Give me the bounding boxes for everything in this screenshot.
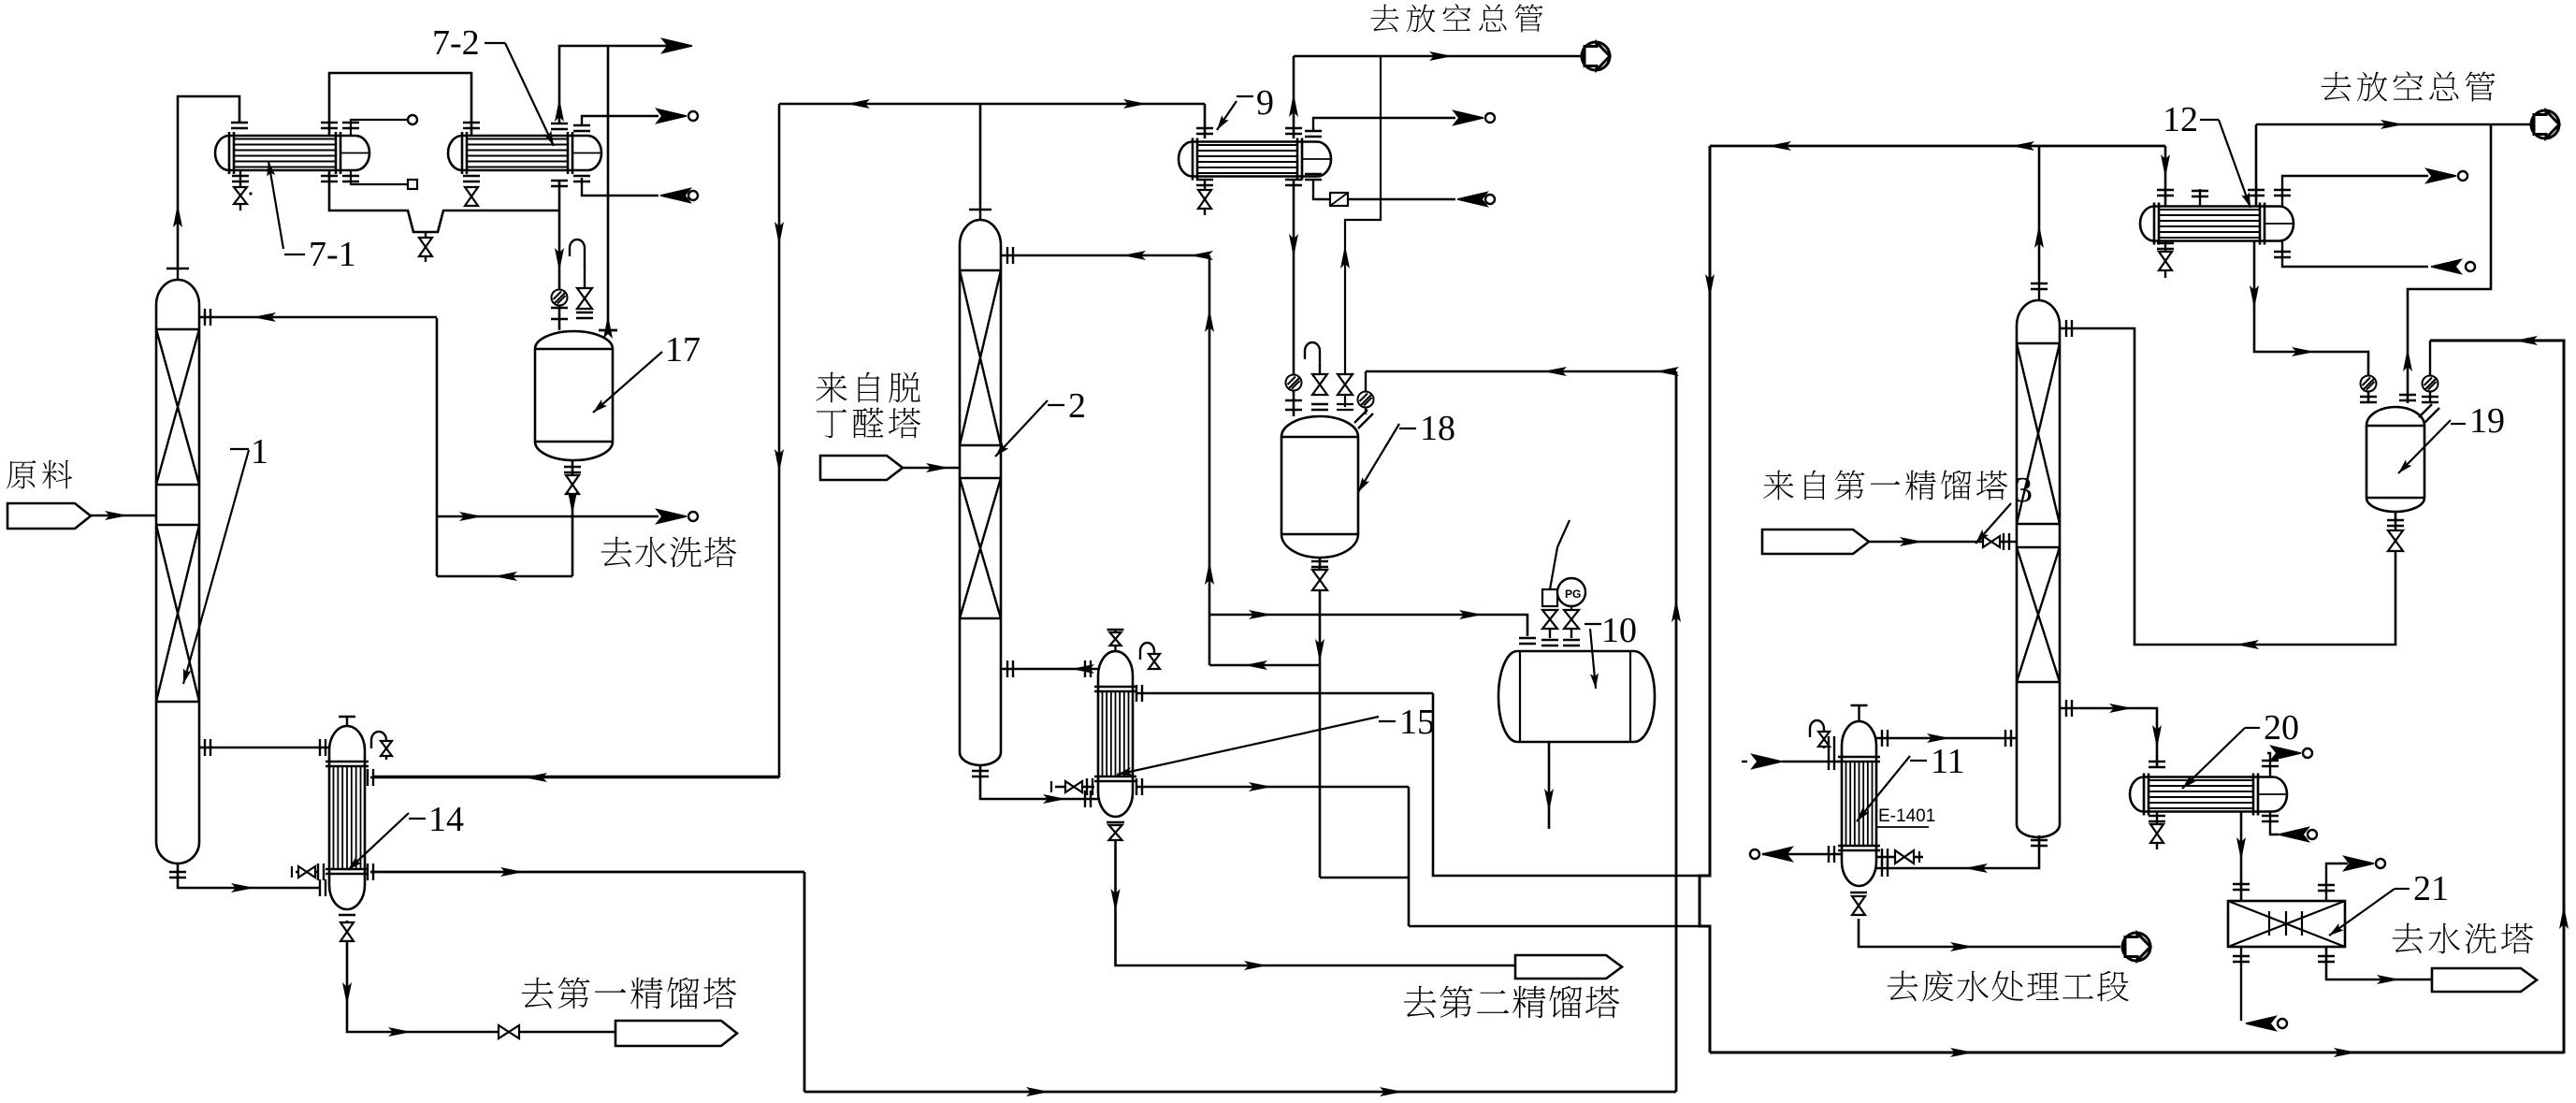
flange riser 7-2 left [463, 123, 480, 128]
arrow right [231, 883, 254, 893]
vessel 10 bottom outlet [1548, 742, 1551, 829]
wire HX12 condensate to vessel 19 [2254, 241, 2368, 403]
wire riser x1828 down (recycle) with jog [1700, 146, 1710, 1052]
wire column 3 bottoms to HX11 [1876, 835, 2039, 868]
arrows left [1543, 367, 1567, 376]
svg-text:15: 15 [1399, 703, 1435, 742]
valve on riser [1338, 374, 1353, 395]
svg-text:7-2: 7-2 [432, 23, 480, 63]
flange 7-2 bottom left [463, 176, 480, 181]
HX11 vapor return to column 3 [1876, 737, 2017, 740]
HX14 left bottom valve stub [296, 871, 318, 874]
feed hexagon 来自第一精馏塔 [1762, 530, 1869, 554]
flange 7-1 bottom right [321, 176, 338, 181]
text 丁醛塔 line2 [817, 409, 847, 438]
arrow right [2109, 704, 2133, 713]
heat exchanger 12 [2140, 203, 2294, 245]
arrow down [342, 982, 352, 1006]
arrow right [459, 512, 483, 521]
label 7-1 leader [268, 161, 283, 249]
valve [1312, 570, 1327, 590]
wire reflux into column 2 top [1001, 254, 1209, 257]
wire column 3 overhead riser [2038, 146, 2041, 281]
HX7-1 bottom-left drain valve [234, 187, 247, 204]
label 2 leader [995, 400, 1048, 457]
valve 7-2 bottom left [465, 187, 478, 206]
label 3 leader [1975, 503, 2011, 544]
wire reflux return to column 1 top [199, 316, 437, 319]
arrow down 2 [774, 449, 784, 472]
HX12 shell bottom-left drain [2164, 241, 2166, 251]
svg-text:21: 21 [2413, 869, 2449, 908]
wire vessel 19 vent riser [2408, 124, 2491, 403]
flange [2004, 533, 2009, 550]
arrow up [1289, 94, 1298, 117]
wire HX7-2 tube outlet riser to vent [559, 46, 675, 123]
heat exchanger 9 [1179, 138, 1331, 181]
text 原料 [7, 460, 36, 488]
unit 21 bottom left outlet [2240, 947, 2242, 1021]
arrow right [388, 1027, 412, 1037]
wire HX7-2 head bottom stub [582, 178, 658, 196]
wire column 2 side vapor return from HX15 [1001, 668, 1098, 671]
label 17 leader [593, 352, 662, 413]
arrow up [603, 315, 613, 339]
flange [1519, 638, 1536, 644]
arrow down [1544, 789, 1554, 812]
flange [2233, 884, 2250, 890]
wire overhead header y111 [779, 103, 1205, 106]
svg-text:3: 3 [2015, 471, 2033, 510]
column 1 (packed distillation column) [156, 267, 199, 864]
arrow [1900, 537, 1923, 546]
HX9 shell bottom-left drain [1204, 180, 1206, 190]
arrow [926, 463, 949, 472]
arrow down [1315, 639, 1324, 662]
arrow left branch [847, 99, 870, 109]
text 去第一精馏塔 [522, 978, 554, 1009]
arrow down 1 [774, 222, 784, 245]
arrow left into HX14 [524, 773, 547, 782]
arrow feed [105, 511, 128, 520]
text 去第二精馏塔 [1404, 986, 1437, 1018]
arrow down [2250, 285, 2259, 309]
wire header into HX9 shell [1204, 104, 1207, 138]
svg-text:18: 18 [1420, 409, 1455, 448]
valve on product line [499, 1025, 519, 1038]
flange below HX14 [339, 914, 355, 916]
arrow left [1244, 660, 1267, 670]
unit 21 plate cooler [2228, 901, 2345, 947]
fat arrow with circle left [1457, 193, 1487, 207]
wire vessel 18 vent riser to header [1345, 56, 1381, 407]
svg-text:1: 1 [251, 432, 268, 472]
wire into vessel19 right nozzle [2429, 341, 2431, 403]
arrow left y689 [2236, 640, 2259, 649]
arrow right [1927, 733, 1950, 743]
column 2 (packed distillation column) [960, 207, 1001, 765]
test point circle [408, 115, 417, 124]
wire feed to column 2 [903, 467, 960, 470]
wire y990 link east [1409, 925, 1700, 928]
label 1 leader [183, 450, 249, 684]
HX14 right top nozzle line to riser x833 [370, 776, 779, 779]
wire riser x860 [803, 872, 806, 1092]
arrow right [1043, 794, 1066, 804]
arrows left [1122, 251, 1146, 260]
HX15 right top outlet line [1136, 692, 1433, 695]
text 去水洗塔 left [601, 537, 632, 567]
wire column 2 overhead riser [979, 104, 982, 207]
feed label hexagon 原料 stream [7, 503, 91, 529]
text 去放空总管 right [2322, 72, 2352, 102]
wire reflux branch y711 to riser x1293 [1209, 664, 1320, 667]
fat arrow with circle pointing left [660, 189, 690, 203]
fat arrow with circle [1454, 111, 1483, 125]
wire y395 header from x1792 [1366, 370, 1676, 373]
hatched circle [2361, 376, 2377, 392]
wire feed to column 3 [1869, 541, 2017, 544]
flange [1311, 561, 1328, 567]
wire x1506 down to y990 [1408, 787, 1411, 926]
flange right [320, 739, 326, 756]
vessel 19 reflux drum [2366, 407, 2424, 512]
unit 21 bottom right to water wash tower [2326, 947, 2432, 980]
HX11 left top flange [1829, 736, 1834, 753]
HX14 gooseneck vent [371, 732, 386, 760]
arrow down [2161, 154, 2170, 178]
text 去放空总管 middle [1371, 5, 1399, 33]
arrow right [500, 867, 524, 877]
flange riser 7-1 [321, 123, 338, 128]
label 11 leader [1857, 756, 1910, 821]
heat exchanger 7-2 [448, 132, 601, 174]
arrow down [1289, 234, 1298, 257]
arrow up right edge [2559, 906, 2569, 929]
HX15 left bottom valve stub [1055, 786, 1094, 789]
heat exchanger 7-1 [215, 132, 369, 174]
vessel 18 reflux drum [1281, 416, 1358, 558]
instrument hatched circle [552, 290, 568, 306]
flange pair [1285, 400, 1302, 410]
valve [2388, 530, 2403, 551]
svg-text:11: 11 [1931, 742, 1965, 781]
label 18 leader [1358, 424, 1399, 492]
svg-text:E-1401: E-1401 [1878, 806, 1935, 826]
flange col3 top nozzle [2066, 320, 2072, 337]
arrow up 1 [1205, 309, 1214, 332]
flange [551, 181, 568, 186]
arrow up x1792 [1672, 599, 1681, 622]
label 7-2 leader [505, 43, 554, 146]
arrow right on waste line [1950, 942, 1974, 951]
vessel 10 relief valve stub [1549, 629, 1551, 638]
vessel 18 angled inlet from y395 header [1365, 371, 1367, 414]
wire into HX12 shell top [2164, 146, 2167, 206]
heat exchanger 11 E-1401 (vertical) [1838, 721, 1880, 886]
flange HX7-1 inlet top [231, 123, 248, 128]
flange [551, 123, 568, 129]
HX12 spare top stub [2199, 189, 2201, 206]
wire column 1 side to HX14 top [199, 747, 329, 749]
arrow down [1705, 274, 1715, 298]
vent symbol right [2531, 110, 2559, 138]
vent header right 去放空总管 [2256, 123, 2532, 126]
HX7-1 head top stub to test point [351, 120, 408, 136]
wire HX15 bottoms to second rectification tower [1116, 839, 1516, 965]
arrow up [2403, 348, 2412, 371]
vessel 19 angled nozzle [2419, 404, 2439, 423]
arrow left into vessel 19 [2514, 336, 2538, 345]
heat exchanger 20 [2130, 774, 2287, 816]
column 3 packing upper [2017, 343, 2060, 524]
wire bottom long line y1167 [804, 1091, 1676, 1094]
HX11 gooseneck with valve [1810, 720, 1824, 748]
arrow down [555, 248, 564, 271]
vent header to 去放空总管 [1294, 55, 1583, 58]
HX7-1 bottom-left drain: flange [232, 176, 249, 181]
vessel 10 horizontal drum [1498, 651, 1655, 742]
wire x1792 riser [1675, 371, 1678, 1092]
svg-text:17: 17 [665, 330, 701, 370]
label 9 leader [1217, 101, 1237, 130]
HX15 right bottom outlet [1136, 786, 1409, 789]
HX12 head bottom stub [2282, 240, 2428, 267]
arrow up [2034, 225, 2044, 248]
unit 21 right top vent stub [2326, 864, 2348, 901]
instrument box [1330, 193, 1348, 206]
HX20 head top stub [2267, 753, 2270, 777]
wire vessel 17 vapor riser [607, 46, 610, 331]
text 来自第一精馏塔 [1763, 471, 1793, 501]
fat arrow with circle [657, 109, 687, 123]
wire HX20 outlet to cooler 21 [2240, 811, 2243, 901]
flange [1285, 128, 1302, 134]
valve [1983, 536, 2000, 547]
wire HX7-2 shell bottom to vessel 17 [558, 181, 561, 330]
arrow right [1244, 961, 1267, 970]
wire feed to column 1 [91, 515, 156, 517]
wire column 3 side draw to HX20 [2060, 708, 2157, 768]
flange [205, 309, 210, 326]
arrow left into column [253, 312, 276, 322]
wire vessel 18 bottoms [1319, 558, 1322, 878]
hatched circle [2423, 376, 2439, 392]
vessel 17 reflux drum [535, 331, 613, 460]
column 2 packing lower [960, 478, 1001, 618]
wire riser x833 down to HX14 [373, 104, 779, 776]
arrow up [1340, 245, 1350, 268]
flange [2066, 700, 2072, 717]
wire HX14 bottoms down and to first rectification tower [347, 921, 615, 1032]
column 2 packing upper [960, 270, 1001, 445]
arrow up riser [555, 98, 564, 122]
hexagon 去水洗塔 right [2432, 968, 2537, 992]
wire HX9 shell bottom to vessel 18 [1293, 180, 1295, 416]
arrow right [2381, 120, 2404, 129]
HX12 head top stub [2282, 176, 2428, 207]
HX11 right bottom control valve stub [1876, 856, 1923, 859]
svg-text:10: 10 [1601, 611, 1637, 650]
flange [2387, 520, 2404, 526]
wire HX9 shell top right riser to vent header [1293, 56, 1295, 138]
flange [2399, 395, 2416, 400]
arrow left into column [1071, 664, 1094, 674]
HX9 head top stub [1313, 118, 1455, 131]
arrows right [1026, 1087, 1049, 1096]
test point square [408, 180, 417, 189]
vent symbol [1582, 42, 1610, 70]
HX11 steam inlet [1782, 761, 1842, 763]
text 来自脱 line1 [816, 372, 847, 403]
wire reflux loop riser x467 [436, 318, 439, 576]
svg-text:12: 12 [2163, 100, 2198, 139]
flange [564, 467, 581, 472]
label 12 leader [2219, 120, 2250, 208]
heat exchanger 14 (vertical) [326, 726, 369, 909]
svg-text:14: 14 [428, 800, 464, 839]
flange [2157, 190, 2174, 196]
arrows right [1249, 610, 1272, 619]
arrow left [1964, 864, 1988, 873]
wire vessel 19 bottoms reflux to column 3 [2060, 328, 2395, 645]
text 去废水处理工段 [1888, 971, 1918, 1001]
seal loop drain valve [425, 232, 427, 239]
arrow right [1249, 782, 1272, 791]
flange left [205, 739, 210, 756]
wire bottom of loop y616 [437, 575, 572, 578]
wire drain header y552 [437, 515, 658, 518]
wire right edge feed to vessel 19 [2430, 341, 2564, 1053]
wire vessel 18 drain branch y938 [1320, 877, 1409, 879]
wire HX12 shell-top-right riser to vent header [2255, 124, 2258, 206]
valve triangle [340, 922, 354, 941]
wire HX7-2 head top stub [582, 116, 658, 125]
wire riser x1532 down [1433, 693, 1700, 876]
flange [2360, 397, 2377, 402]
svg-text:19: 19 [2469, 401, 2505, 441]
arrow right branch [1123, 99, 1147, 109]
hatched circle [1358, 392, 1374, 408]
wire reflux riser x1293 [1208, 255, 1211, 665]
flange pair above vessel 17 [551, 308, 568, 319]
label 21 leader [2329, 889, 2395, 936]
label 19 leader [2398, 420, 2451, 473]
text 去水洗塔 right [2393, 923, 2424, 953]
HX15 gooseneck [1140, 643, 1154, 669]
flange at HX14 [320, 879, 326, 896]
arrow down [2236, 837, 2246, 861]
HX20 bottom-left drain [2156, 812, 2158, 823]
wire bottom manifold with seal loop [329, 170, 559, 232]
arrow overhead up [173, 204, 182, 227]
fat arrow with circle left [2431, 260, 2461, 274]
wire column 2 bottoms to HX15 [980, 765, 1098, 799]
HX11 condensate outlet [1762, 853, 1842, 856]
column 3 packing lower [2017, 547, 2060, 682]
flange [1196, 128, 1213, 134]
flange [368, 864, 373, 880]
hexagon 去第二精馏塔 [1515, 955, 1622, 979]
fat arrow vent end [662, 39, 692, 53]
fat arrow with circle drain end [657, 510, 687, 524]
column 1 packing section lower [156, 525, 199, 702]
heat exchanger 15 (vertical) [1094, 651, 1136, 817]
svg-text:2: 2 [1068, 386, 1086, 426]
wire overhead header y156 [1710, 145, 2165, 148]
HX15 top stem valve [1110, 632, 1122, 646]
wire waste water line HX11 to pump [1871, 946, 2120, 949]
instrument hatched circle [1286, 375, 1302, 391]
HX14 right bottom outlet [370, 871, 804, 874]
svg-text:9: 9 [1256, 83, 1274, 123]
arrow up 2 [1205, 561, 1214, 585]
arrows right y1125 [1950, 1048, 1974, 1057]
wire vessel 17 bottoms [572, 460, 574, 576]
arrow right [2377, 975, 2400, 984]
wire column 1 overhead riser [178, 96, 239, 267]
label 10 leader [1590, 629, 1596, 689]
column 3 (packed distillation column) [2017, 281, 2060, 837]
pump symbol on waste line [2122, 933, 2150, 961]
flange [1007, 247, 1013, 264]
arrows left [1768, 141, 1791, 151]
HX7-1 head bottom stub to test point [351, 170, 408, 184]
label 15 leader [1117, 717, 1379, 775]
svg-text:PG: PG [1565, 588, 1581, 601]
wire bottom right long line y1125 [1710, 1052, 2564, 1054]
label 20 leader [2182, 728, 2245, 789]
vessel 10 pressure gauge PG [1570, 629, 1572, 638]
wire column 1 bottoms to HX14 [178, 864, 320, 888]
flange above HX20 [2149, 762, 2165, 767]
arrow right [2292, 347, 2315, 356]
svg-text:7-1: 7-1 [309, 235, 356, 274]
arrow down [568, 491, 577, 515]
hexagon 去第一精馏塔 [615, 1021, 737, 1046]
feed hexagon 来自脱丁醛塔 [820, 456, 903, 480]
HX20 head bottom stub [2270, 811, 2279, 835]
flange [2422, 397, 2439, 402]
flange [368, 769, 373, 786]
arrow down [1111, 889, 1121, 912]
fat arrow with circle [2426, 169, 2456, 183]
column 1 packing section upper [156, 329, 199, 485]
wire branch y657 to vessel 10 [1209, 615, 1527, 636]
valve [566, 475, 579, 494]
wire top manifold HX7-1 to HX7-2 [329, 73, 471, 136]
angled nozzle ticks [1354, 410, 1373, 428]
arrow left [494, 572, 517, 581]
arrow down [2152, 725, 2162, 748]
label 14 leader [348, 813, 409, 870]
vessel 17 gooseneck vent with valve [584, 264, 586, 287]
vessel 18 gooseneck vent with valve [1319, 365, 1321, 373]
tick [599, 329, 617, 332]
wire HX11 bottoms to waste pump [1859, 919, 1871, 947]
arrow right [1429, 51, 1453, 61]
HX9 head bottom stub with inline instrument [1313, 180, 1455, 199]
svg-text:20: 20 [2264, 708, 2299, 747]
